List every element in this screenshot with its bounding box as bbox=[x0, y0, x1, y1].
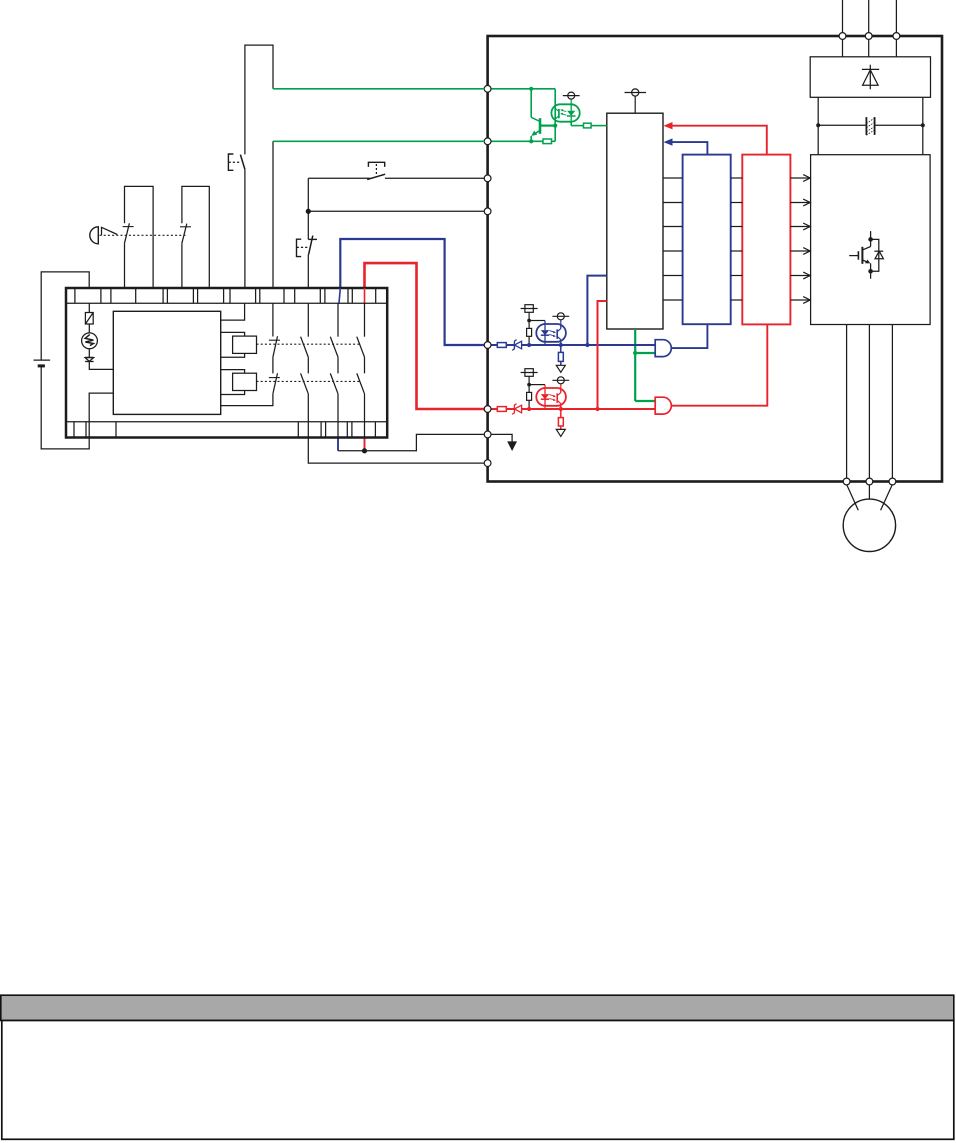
safety relay module enclosure bbox=[66, 288, 387, 438]
relay coil K3 bbox=[233, 373, 257, 390]
optocoupler PC3 body bbox=[536, 388, 566, 406]
wire red input segment 1 bbox=[491, 408, 498, 410]
terminal T/L3 bbox=[893, 33, 900, 40]
fuse F3 internal bbox=[85, 313, 93, 325]
wire motor lead U bbox=[847, 484, 859, 510]
wire fuse to indicator bbox=[88, 324, 90, 333]
power supply symbol above PC1 bbox=[563, 92, 580, 104]
power supply symbol above U1 bbox=[625, 89, 647, 113]
resistor R7 red pull-up bbox=[527, 385, 532, 407]
contact output1 mid wire bbox=[307, 357, 309, 373]
indicator P1 bbox=[82, 333, 98, 349]
terminal strip bottom dividers bbox=[74, 422, 375, 438]
wire red riser to U1 bbox=[598, 301, 607, 409]
inverter IGBT module block bbox=[811, 155, 931, 325]
wire green channel B to drive bbox=[273, 140, 485, 142]
node blue pullup junction bbox=[527, 319, 531, 323]
SECTION:EXTERNAL bbox=[34, 45, 517, 466]
contact output2 upper wire bbox=[337, 303, 339, 337]
relay coil K2 bbox=[233, 336, 257, 353]
SECTION:BLUE bbox=[491, 276, 656, 373]
switch S3 guard bbox=[228, 154, 240, 170]
contact feedback row1 tick bbox=[269, 339, 280, 341]
wire feedback riser upper bbox=[307, 178, 309, 239]
wire channel A riser lower bbox=[244, 169, 246, 288]
and-gate A1 blue bbox=[655, 340, 671, 357]
node DC bus left bbox=[816, 123, 820, 127]
wire PC1 output to R2 bbox=[571, 125, 583, 127]
SECTION:CONTROL bbox=[607, 89, 810, 414]
LED inside PC1 bbox=[567, 104, 576, 121]
switch estop contact 1 blade bbox=[125, 223, 130, 243]
switch S2 tick bbox=[308, 238, 317, 240]
wire phase L2 input bbox=[868, 0, 870, 57]
wire estop loop 2 bbox=[181, 243, 183, 288]
wire green rail 1 bbox=[491, 88, 556, 90]
wire battery loop top bbox=[41, 272, 89, 360]
node green rail2 junction bbox=[529, 139, 533, 143]
switch estop contact 2 tick bbox=[180, 226, 191, 228]
diode D2 freewheel bbox=[874, 250, 883, 252]
wire DC bus negative bbox=[922, 97, 924, 154]
wire gate drive arrows U3 to inverter bbox=[790, 175, 810, 304]
wire motor lead V bbox=[868, 484, 870, 499]
terminal U bbox=[843, 478, 850, 485]
wire blue input segment 2 bbox=[506, 344, 514, 346]
wire K1 return to bottom strip bbox=[89, 393, 113, 437]
wire earth link inside drive bbox=[491, 434, 513, 442]
light arrows PC1 bbox=[560, 109, 566, 115]
wire interlock lower bbox=[308, 210, 484, 212]
wire red contact stub bbox=[364, 438, 366, 451]
arrowhead into U1 blue bbox=[664, 138, 673, 145]
wire indicator to diode bbox=[88, 349, 90, 358]
power supply symbol above PC3 bbox=[552, 377, 569, 388]
wire output1 through strip bbox=[307, 422, 309, 438]
terminal drive T7 bbox=[484, 431, 491, 438]
op-amp U1 control logic block bbox=[607, 113, 663, 329]
caption header bar bbox=[1, 995, 954, 1020]
contact output3 lower wire bbox=[364, 394, 366, 438]
wire interlock upper left part bbox=[308, 177, 370, 179]
diode D3 blue clamp bbox=[512, 340, 521, 351]
wire channel A riser upper bbox=[245, 45, 273, 154]
terminal R/L1 bbox=[839, 33, 846, 40]
wire signal rows U2 to U3 bbox=[731, 178, 743, 300]
contact output1 upper wire bbox=[307, 303, 309, 337]
contact output2 lower wire bbox=[337, 394, 339, 438]
SECTION:RELAY bbox=[66, 288, 387, 438]
wire pullup to LED anode red bbox=[529, 384, 545, 386]
diode D1 rectifier symbol bbox=[862, 65, 879, 90]
terminal drive T6 bbox=[484, 406, 491, 413]
wire motor phase W bbox=[891, 325, 893, 482]
battery BT1 short plate bbox=[38, 364, 45, 367]
contact feedback row2 tick bbox=[269, 377, 280, 379]
contact output2 row2 blade bbox=[330, 373, 338, 393]
emergency stop button head bbox=[90, 227, 99, 244]
arrowhead into U1 red bbox=[664, 122, 673, 129]
terminal drive T1 bbox=[484, 85, 491, 92]
wire R8 to common bbox=[560, 426, 562, 429]
wire blue feedback U2 to U1 bbox=[667, 142, 707, 155]
contact feedback row2 blade bbox=[273, 373, 278, 394]
wire red pulldown bbox=[560, 409, 562, 418]
wire green rail 2 left bbox=[491, 140, 544, 142]
mechanical link dotted K2 bbox=[257, 343, 361, 345]
optocoupler PC1 body bbox=[551, 104, 579, 121]
SECTION:RED bbox=[491, 301, 656, 436]
contact feedback upper wire bbox=[272, 303, 274, 336]
wire green vertical B bbox=[554, 89, 556, 142]
phototransistor inside PC1 bbox=[556, 109, 559, 119]
wire blue inside strip bbox=[339, 288, 340, 303]
transistor Q1 IGBT symbol bbox=[849, 231, 883, 279]
resistor R8 red pulldown bbox=[558, 418, 563, 426]
wire battery loop bottom bbox=[41, 366, 89, 449]
power supply symbol above PC2 bbox=[552, 313, 569, 324]
node red wire at R7 bbox=[527, 407, 531, 411]
wire R2 to U1 bbox=[591, 125, 607, 127]
contact output1 row2 blade bbox=[301, 373, 309, 393]
wire motor phase V bbox=[868, 325, 870, 482]
node blue wire at riser bbox=[585, 343, 589, 347]
ground arrow symbol bbox=[508, 442, 516, 450]
terminal drive T3 bbox=[484, 175, 491, 182]
wire supply input internal bbox=[88, 303, 90, 312]
diode D4 red clamp bbox=[512, 404, 521, 415]
common reference symbol red bbox=[556, 429, 565, 436]
terminal W bbox=[889, 478, 896, 485]
wire pullup to LED anode bbox=[529, 320, 545, 322]
wire signal rows U1 to U2 bbox=[663, 178, 683, 300]
relay logic block K1 bbox=[113, 311, 220, 414]
wire diode to K1 bbox=[89, 362, 113, 370]
wire blue contact stub bbox=[337, 438, 339, 451]
terminal drive T8 bbox=[484, 460, 491, 467]
contact output2 mid wire bbox=[337, 357, 339, 373]
node red wire at PC3 emitter bbox=[559, 407, 563, 411]
switch S1 actuator bbox=[368, 162, 384, 175]
terminal strip top bbox=[66, 302, 387, 304]
fuse F1 blue pull-up bbox=[521, 305, 538, 321]
resistor R3 blue input bbox=[497, 343, 506, 348]
switch S2 guard bbox=[297, 239, 309, 256]
SECTION:POWER bbox=[488, 0, 942, 552]
wire phase L1 input bbox=[842, 0, 844, 57]
node green rail1 junction bbox=[529, 87, 533, 91]
wire motor phase U bbox=[846, 325, 848, 482]
LED inside PC2 bbox=[541, 321, 549, 346]
caption body box bbox=[2, 1021, 954, 1140]
rectifier block bbox=[810, 57, 930, 98]
contact output2 row1 blade bbox=[330, 337, 338, 357]
mechanical link dotted estop bbox=[100, 234, 187, 236]
wire red feedback U3 to U1 bbox=[667, 126, 767, 155]
resistor R2 green bbox=[584, 123, 592, 128]
wire A1 output to U2 bbox=[671, 324, 707, 348]
terminal strip top dividers bbox=[75, 288, 376, 303]
wire A2 output to U3 bbox=[671, 324, 767, 405]
node DC bus right bbox=[921, 123, 925, 127]
wire phase L3 input bbox=[895, 0, 897, 57]
resistor R1 green bbox=[543, 139, 552, 144]
node stub junction bbox=[363, 449, 367, 453]
wire blue input segment 1 bbox=[491, 344, 498, 346]
terminal drive T4 bbox=[484, 208, 491, 215]
node interlock junction bbox=[306, 209, 310, 213]
terminal strip bottom bbox=[66, 421, 387, 423]
phototransistor inside PC2 bbox=[557, 324, 561, 345]
wire blue main run bbox=[522, 344, 656, 346]
node red wire at riser bbox=[595, 407, 599, 411]
LED inside PC3 bbox=[541, 385, 549, 409]
wire estop loop 1 bbox=[124, 243, 126, 288]
wire green channel A to drive bbox=[273, 88, 485, 90]
node red pullup junction bbox=[527, 383, 531, 387]
motor M1 bbox=[843, 499, 895, 551]
diode D5 internal bbox=[85, 357, 94, 361]
node green base junction bbox=[553, 124, 557, 128]
node blue wire at R4 bbox=[527, 343, 531, 347]
switch S1 blade bbox=[367, 174, 385, 179]
capacitor C1 DC bus bbox=[866, 117, 874, 135]
transistor Q2 green bbox=[531, 89, 555, 142]
wire feedback riser lower bbox=[307, 255, 309, 289]
switch estop contact 2 blade bbox=[182, 224, 187, 244]
wire motor lead W bbox=[881, 484, 893, 510]
switch estop contact 1 tick bbox=[123, 226, 134, 228]
light arrows PC3 bbox=[549, 395, 556, 402]
wire capacitor link right bbox=[875, 124, 923, 126]
wire coil K3 bottom lead bbox=[221, 391, 245, 395]
wire red STO channel bbox=[365, 263, 485, 409]
terminal drive T5 bbox=[484, 342, 491, 349]
wire R5 to common bbox=[560, 361, 562, 365]
wire coil K2 top lead bbox=[221, 332, 245, 336]
common reference symbol blue bbox=[556, 365, 565, 372]
gate driver block U3 bbox=[742, 155, 790, 325]
wire monitor stepped to drive terminal 7 bbox=[338, 434, 485, 450]
contact output3 mid wire bbox=[364, 357, 366, 373]
wire PC1 output down bbox=[570, 122, 572, 126]
contact feedback mid wire bbox=[272, 357, 274, 373]
wire red input segment 2 bbox=[506, 408, 514, 410]
contact output3 upper wire bbox=[364, 303, 366, 337]
wire blue riser to U1 bbox=[587, 276, 606, 345]
and-gate A2 red bbox=[655, 397, 671, 414]
optocoupler PC2 body bbox=[536, 324, 566, 342]
drive enclosure box bbox=[488, 36, 942, 482]
wire DC bus positive bbox=[817, 97, 819, 154]
wire green enable from U1 to gates bbox=[635, 329, 655, 401]
terminal S/L2 bbox=[865, 33, 872, 40]
contact feedback row1 blade bbox=[273, 336, 278, 357]
contact output1 lower wire bbox=[307, 394, 309, 422]
battery BT1 long plate bbox=[34, 359, 51, 361]
SECTION:GREEN bbox=[491, 87, 607, 144]
wire red main run bbox=[522, 408, 656, 410]
phototransistor inside PC3 bbox=[557, 388, 561, 409]
resistor R5 blue pulldown bbox=[558, 352, 563, 361]
wire red inside strip bbox=[364, 288, 366, 303]
mechanical link dotted K3 bbox=[257, 380, 361, 382]
wire coil K3 top lead bbox=[221, 370, 245, 374]
wire relay output to drive terminal 8 bbox=[308, 438, 484, 464]
wire channel B riser bbox=[272, 141, 274, 288]
wire blue STO channel bbox=[340, 239, 484, 345]
wire green rail 2 right bbox=[552, 140, 556, 142]
switch S2 blade bbox=[309, 236, 313, 255]
resistor R4 blue pull-up bbox=[527, 321, 532, 344]
terminal V bbox=[866, 478, 873, 485]
wire coil K2 bottom lead bbox=[221, 353, 245, 357]
fuse F2 red pull-up bbox=[521, 369, 538, 385]
contact output3 row1 blade bbox=[357, 337, 365, 357]
node blue wire at PC2 emitter bbox=[559, 343, 563, 347]
light arrows PC2 bbox=[549, 331, 556, 338]
wire channel A step into K1 bbox=[221, 303, 245, 320]
terminal drive T2 bbox=[484, 138, 491, 145]
switch S3 blade bbox=[240, 155, 245, 170]
wire blue pulldown bbox=[560, 345, 562, 352]
emergency stop actuator flag bbox=[102, 227, 118, 235]
resistor R6 red input bbox=[497, 407, 506, 412]
wire interlock upper right part bbox=[385, 177, 485, 179]
node green branch bbox=[633, 351, 637, 355]
wire capacitor link left bbox=[818, 124, 866, 126]
gate driver block U2 bbox=[683, 155, 731, 325]
wire feedback return to K1 bbox=[221, 394, 273, 406]
contact output3 row2 blade bbox=[357, 373, 365, 393]
contact output1 row1 blade bbox=[301, 337, 309, 357]
